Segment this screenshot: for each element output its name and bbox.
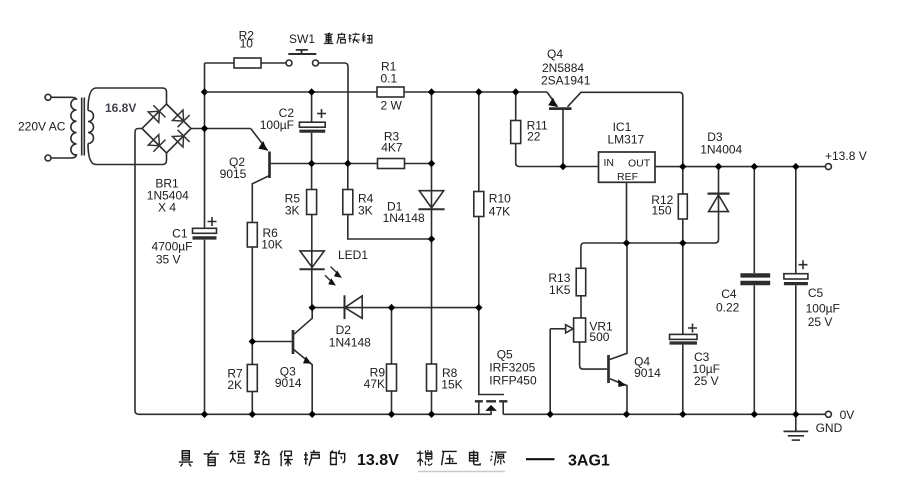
capacitor C5 bottom plate [784, 282, 808, 285]
wire C4 bottom lead [753, 285, 755, 414]
MOSFET Q5 channel bars [475, 400, 508, 402]
svg-text:9014: 9014 [275, 376, 302, 390]
wire R10 bottom lead [478, 217, 480, 308]
C2 plus sign [317, 109, 326, 118]
wire R2 to SW1 [261, 62, 286, 64]
junction (391.5,414.3) [388, 411, 395, 418]
wire R12 bottom lead [682, 219, 684, 243]
diode D2 cathode bar [344, 295, 346, 319]
svg-text:LED1: LED1 [338, 248, 368, 262]
transformer T1 secondary winding [88, 111, 94, 144]
terminal +13.8V [825, 164, 831, 170]
svg-text:220V AC: 220V AC [18, 120, 66, 134]
transistor Q4 9014 emitter wire [610, 379, 627, 415]
diode D2 triangle [345, 296, 362, 318]
Q3 emitter arrow [303, 356, 311, 363]
wire secondary top to bridge AC top [88, 88, 167, 111]
junction (312.2,414.3) [309, 411, 316, 418]
wire R10 top lead [478, 92, 480, 192]
svg-text:1K5: 1K5 [549, 283, 571, 297]
transistor Q4 2N5884 emitter wire [547, 92, 558, 107]
svg-text:Q5: Q5 [497, 348, 513, 362]
junction (515.7,92) [512, 88, 519, 95]
svg-text:1N4004: 1N4004 [700, 143, 742, 157]
wire Q3 base [252, 341, 291, 343]
svg-text:0.1: 0.1 [381, 72, 398, 86]
junction (563,166.5) [559, 163, 566, 170]
wire R4 top lead [347, 164, 349, 190]
svg-text:X 4: X 4 [158, 201, 176, 215]
caption faint underline [418, 471, 505, 473]
svg-text:25 V: 25 V [694, 374, 719, 388]
wire column x431.5 top [431, 92, 433, 364]
wire primary top lead [51, 97, 77, 100]
bridge diode BR1 bottom-left [147, 134, 165, 152]
LED LED1 triangle [300, 251, 324, 267]
capacitor C2 top plate [299, 122, 325, 127]
wire bottom rail right segment [503, 413, 825, 415]
junction (626.5,243) [623, 239, 630, 246]
transistor Q4 9014 base bar [607, 355, 610, 383]
wire R13 to VR1 [580, 296, 582, 318]
resistor R9 [387, 364, 397, 391]
transformer T1 primary winding [71, 99, 77, 156]
svg-text:R10: R10 [489, 192, 511, 206]
junction (754.3,414.3) [751, 411, 758, 418]
svg-text:C1: C1 [172, 227, 188, 241]
svg-text:+13.8 V: +13.8 V [825, 149, 867, 163]
svg-text:9015: 9015 [220, 167, 247, 181]
transistor Q2 emitter wire [251, 129, 268, 151]
wire restart branch left [205, 62, 235, 64]
transformer T1 core [82, 98, 85, 156]
svg-text:10K: 10K [261, 238, 282, 252]
svg-text:35 V: 35 V [156, 253, 181, 267]
svg-text:2 W: 2 W [381, 99, 403, 113]
svg-text:2K: 2K [227, 378, 242, 392]
wire secondary bottom to bridge AC bottom [88, 144, 167, 165]
svg-text:1N4148: 1N4148 [383, 211, 425, 225]
wire primary bottom lead [51, 154, 77, 158]
svg-text:9014: 9014 [634, 366, 661, 380]
svg-text:3AG1: 3AG1 [568, 453, 610, 470]
caption Chinese: 稳压电源 [417, 450, 507, 466]
junction (478.8,307.6) [475, 304, 482, 311]
svg-text:47K: 47K [364, 377, 385, 391]
transistor Q4 2N5884 base bar [549, 107, 572, 110]
wire main rail y92 right part [404, 91, 547, 93]
junction (252.3,414.3) [249, 411, 256, 418]
svg-text:0.22: 0.22 [716, 301, 740, 315]
wire R7 bottom to rail [251, 392, 253, 415]
Q2 emitter arrow [258, 141, 267, 151]
wire R8 bottom to rail [431, 391, 433, 414]
resistor R10 [474, 192, 484, 217]
svg-text:25 V: 25 V [808, 315, 833, 329]
capacitor C4 plates [740, 275, 770, 283]
diode D3 triangle [709, 195, 729, 212]
label SW1 Chinese: 重启按钮 [324, 33, 373, 44]
bridge diode BR1 top-left [147, 105, 165, 123]
capacitor C3 top plate [670, 334, 698, 339]
svg-text:3K: 3K [358, 204, 373, 218]
wire R5 bottom to LED1 [311, 215, 313, 308]
resistor R7 [247, 365, 257, 392]
resistor R12 [678, 194, 687, 219]
wire Q4 2N5884 collector to OUT column [568, 92, 683, 166]
svg-text:1N4148: 1N4148 [329, 336, 371, 350]
resistor R1 [377, 87, 404, 97]
junction (431.5,239) [428, 235, 435, 242]
junction (682.8,414.3) [679, 411, 686, 418]
switch SW1 actuator [288, 50, 316, 54]
capacitor C3 bottom plate [670, 341, 698, 344]
svg-text:22: 22 [527, 130, 541, 144]
svg-text:150: 150 [651, 204, 671, 218]
wire C2 top lead [311, 92, 313, 122]
junction (431.5,414.3) [428, 411, 435, 418]
wire Q5 gate column [479, 308, 504, 395]
svg-text:4K7: 4K7 [381, 141, 403, 155]
resistor R4 [343, 190, 353, 215]
wire REF line to R13 [581, 243, 683, 268]
wire IC1 OUT line [655, 166, 825, 168]
svg-text:SW1: SW1 [289, 32, 315, 46]
op-amp IC1 LM317 box [599, 152, 656, 182]
wire Q4 2N5884 base stub [562, 110, 564, 167]
junction (204.5,414.3) [201, 411, 208, 418]
resistor R6 [247, 223, 257, 248]
wire C4 top lead [753, 167, 755, 274]
Q4 9014 emitter arrow [618, 379, 626, 387]
transistor Q2 base bar [268, 152, 271, 179]
wire VR1 wiper down to rail [549, 329, 551, 415]
bridge diode BR1 top-right [172, 109, 190, 127]
wire R12 top lead [682, 167, 684, 194]
wire R9 bottom lead [391, 391, 393, 414]
LED1 emission arrows [325, 267, 342, 286]
wire C5 bottom lead [795, 285, 797, 414]
wire D2 line [312, 307, 479, 309]
junction (795.8,414.3) [792, 411, 799, 418]
Q4 2N5884 emitter arrow [548, 98, 557, 107]
ground symbol [784, 414, 809, 440]
wire C3 top lead [682, 243, 684, 334]
resistor R13 [576, 268, 586, 296]
junction (431.5,92) [428, 88, 435, 95]
C1 plus sign [208, 217, 217, 226]
wire C2 bottom lead [311, 133, 313, 164]
junction (312.2,307.6) [309, 304, 316, 311]
junction (718.5,166.6) [715, 163, 722, 170]
junction (252.3,341.5) [249, 338, 256, 345]
MOSFET Q5 drain stub [502, 401, 504, 414]
transistor Q4 9014 collector wire [610, 243, 627, 360]
svg-text:OUT: OUT [628, 158, 651, 170]
junction (311.6,163.5) [308, 160, 315, 167]
wire R9 top lead [391, 308, 393, 364]
junction (682.8,166.6) [679, 163, 686, 170]
junction (682.8,243) [679, 239, 686, 246]
resistor R11 [511, 121, 521, 144]
wire R4 bottom to D1 node [348, 215, 432, 240]
MOSFET Q5 source stub [478, 401, 480, 414]
VR1 wiper arrow [550, 325, 573, 333]
bridge diode BR1 bottom-right [172, 130, 190, 148]
junction (204.5,92) [201, 88, 208, 95]
svg-text:4700µF: 4700µF [152, 240, 193, 254]
svg-text:15K: 15K [441, 378, 462, 392]
diode D3 cathode bar [708, 192, 730, 194]
svg-text:IRFP450: IRFP450 [489, 374, 537, 388]
svg-text:10: 10 [240, 37, 254, 51]
wire R11 bottom to IC1 IN [516, 144, 599, 167]
transistor Q3 emitter wire [294, 350, 312, 415]
svg-text:500: 500 [589, 330, 609, 344]
junction (795.8,166.6) [792, 163, 799, 170]
LED1 cathode bar [300, 268, 325, 270]
potentiometer VR1 box [574, 318, 586, 342]
svg-text:0V: 0V [840, 408, 855, 422]
wire R5 top lead [311, 164, 313, 190]
terminal 220V AC top [45, 94, 51, 100]
junction (550.2,414.3) [547, 411, 554, 418]
caption Chinese: 具有短路保护的 [179, 450, 345, 466]
wire R11 top lead [515, 92, 517, 121]
resistor R3 [378, 159, 405, 169]
svg-text:13.8V: 13.8V [357, 452, 399, 469]
resistor R8 [427, 364, 437, 391]
capacitor C5 top plate [784, 274, 808, 279]
caption dash [526, 458, 555, 460]
resistor R5 [307, 190, 317, 215]
junction (754.3,166.6) [751, 163, 758, 170]
wire VR1 bottom to Q4 9014 base [580, 342, 608, 369]
svg-text:47K: 47K [489, 205, 510, 219]
diode D1 triangle [419, 191, 443, 208]
svg-text:16.8V: 16.8V [105, 101, 136, 115]
svg-text:C4: C4 [721, 287, 737, 301]
wire main V+ column x204.5 lower below C1 [204, 240, 206, 415]
MOSFET Q5 body arrow [485, 405, 497, 414]
C3 plus sign [688, 324, 697, 333]
capacitor C2 bottom plate [299, 130, 325, 133]
wire C5 top lead [795, 167, 797, 274]
junction (431.5,163.5) [428, 160, 435, 167]
junction (204.5,128.5) [201, 125, 208, 132]
wire C3 bottom lead [682, 345, 684, 415]
bridge rectifier BR1 diamond [142, 104, 191, 153]
svg-text:IN: IN [604, 157, 615, 169]
transistor Q3 base bar [292, 330, 295, 354]
wire bridge positive output [191, 128, 251, 130]
svg-text:100µF: 100µF [260, 118, 294, 132]
junction (311.6,92) [308, 88, 315, 95]
wire R6 bottom to node [251, 247, 253, 365]
svg-text:Q4: Q4 [547, 47, 563, 61]
svg-text:100µF: 100µF [806, 302, 840, 316]
D1 cathode bar [418, 208, 444, 210]
junction (626.5,414.3) [623, 411, 630, 418]
wire bridge negative to left rail and bottom rail left segment [135, 129, 492, 415]
svg-text:C5: C5 [808, 286, 824, 300]
switch SW1 contacts [286, 60, 319, 66]
transistor Q3 collector wire [294, 308, 312, 335]
junction (347.8,163.5) [344, 160, 351, 167]
capacitor C1 4700uF top plate [193, 228, 217, 233]
resistor R2 [234, 58, 261, 68]
terminal 220V AC bottom [45, 155, 51, 161]
wire Q2 collector diagonal [252, 176, 268, 223]
svg-text:2SA1941: 2SA1941 [541, 74, 591, 88]
wire Q2 base to R3 line [271, 163, 378, 165]
junction (391.5,307.6) [388, 304, 395, 311]
wire SW1 right down to R3 line [319, 63, 349, 164]
svg-text:REF: REF [617, 171, 638, 183]
terminal 0V [825, 411, 831, 417]
C5 plus sign [799, 260, 808, 269]
svg-text:IRF3205: IRF3205 [489, 361, 535, 375]
svg-text:LM317: LM317 [608, 133, 645, 147]
svg-text:GND: GND [816, 421, 843, 435]
junction (478.8,92) [475, 88, 482, 95]
svg-text:3K: 3K [285, 204, 300, 218]
wire main rail y92 left part [205, 91, 378, 93]
diode D3 through wire [683, 167, 719, 243]
capacitor C1 bottom plate [193, 236, 217, 239]
wire R3 right to column [405, 163, 432, 165]
wire IC1 REF pin [626, 182, 628, 243]
wire main V+ column x204.5 upper [204, 63, 206, 228]
